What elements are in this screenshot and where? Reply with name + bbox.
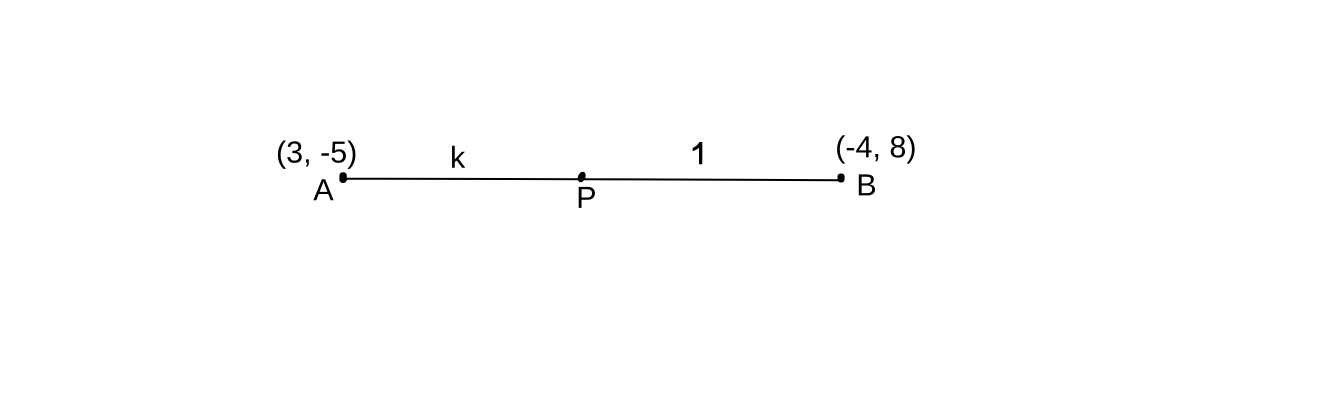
wire segment A-P [343, 178, 582, 181]
label coordinates of B: (-4, 8) [837, 135, 915, 163]
label point B [859, 174, 875, 195]
label coordinates of A: (3, -5) [278, 141, 356, 169]
label point A [313, 179, 333, 200]
node B dot [838, 174, 845, 183]
label ratio k [452, 146, 465, 168]
label ratio 1 (Arial-style numeral without base serif) [693, 142, 703, 164]
label point P [579, 187, 595, 208]
wire segment P-B [582, 179, 841, 180]
node P dot [576, 171, 587, 184]
node A dot [339, 172, 346, 183]
